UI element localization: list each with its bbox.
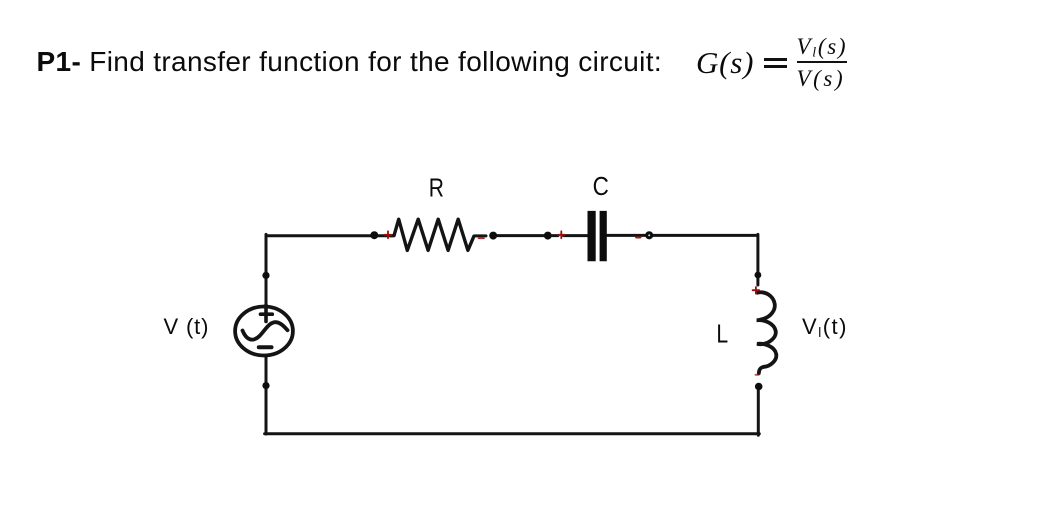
node dot left branch lower [262,382,269,389]
node dot after top-left wire [370,231,378,239]
inductor L coil [757,292,777,373]
title text [37,48,663,76]
capacitor C left plate [587,211,595,261]
red terminal mark top of inductor [753,287,760,294]
node ring right of capacitor [647,233,652,238]
red terminal mark right of capacitor [636,236,640,238]
voltage source minus sign [259,345,272,349]
voltage source plus sign [261,305,273,322]
node dot right of resistor [489,232,497,240]
formula numerator Vl(s) [797,35,848,61]
wire between resistor and capacitor [494,234,547,237]
formula G(s) term [696,47,754,78]
voltage source sine wave [243,322,288,339]
wire left vertical lower [265,357,268,434]
wire right vertical lower [757,391,760,436]
node dot right branch lower [755,383,763,391]
node dot left branch upper [262,272,269,279]
node dot left of capacitor group [544,232,552,240]
wire top-left horizontal [266,234,391,237]
node dot right branch upper [755,272,762,279]
wire short dash left of capacitor [553,234,559,237]
capacitor C right plate [600,211,607,261]
svg-text:R: R [429,173,444,203]
wire top-right corner vertical [756,234,759,285]
formula denominator V(s) [797,67,846,90]
formula equals sign [764,58,787,61]
red terminal mark bottom of inductor [755,374,758,376]
red terminal mark left of capacitor [558,231,565,238]
wire capacitor to ring node [607,234,645,237]
red terminal mark left of resistor [385,231,392,238]
resistor R zigzag [391,219,474,250]
wire left vertical upper [265,234,268,305]
wire red-to-capacitor [564,234,589,237]
wire bottom horizontal [265,432,760,435]
wire ring node to top-right corner [653,234,757,237]
formula fraction bar [797,61,847,63]
wire resistor right tail [475,234,487,237]
svg-text:C: C [593,171,609,201]
red terminal mark right of resistor [479,237,485,239]
voltage source V(t) circle [235,307,293,356]
svg-text:L: L [716,318,728,348]
svg-text:Vl(t): Vl(t) [802,314,848,340]
svg-text:V (t): V (t) [164,314,210,339]
